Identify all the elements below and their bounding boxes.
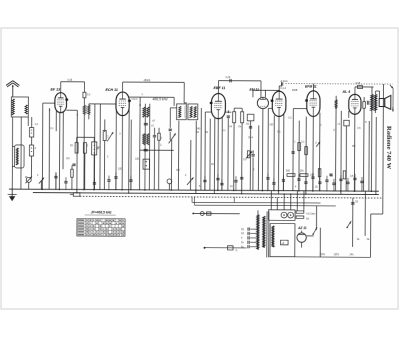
svg-text:1.: 1. xyxy=(141,93,143,96)
svg-text:45000: 45000 xyxy=(144,79,151,82)
svg-text:EM 11: EM 11 xyxy=(249,88,259,92)
svg-text:EF 13: EF 13 xyxy=(50,88,60,92)
svg-text:0,05: 0,05 xyxy=(226,76,231,79)
svg-text:1M: 1M xyxy=(66,157,69,160)
svg-text:150: 150 xyxy=(310,174,315,177)
svg-text:0,1-4: 0,1-4 xyxy=(280,87,286,90)
svg-text:ECH 11: ECH 11 xyxy=(105,88,117,92)
svg-text:2.: 2. xyxy=(160,144,162,147)
svg-text:AL 4: AL 4 xyxy=(341,90,350,94)
svg-text:100: 100 xyxy=(118,168,123,171)
svg-text:ZWB: ZWB xyxy=(292,89,298,92)
svg-text:AZ 11: AZ 11 xyxy=(297,226,307,230)
svg-text:100: 100 xyxy=(269,123,274,126)
svg-text:500: 500 xyxy=(286,169,291,172)
svg-text:30-4: 30-4 xyxy=(248,136,253,139)
svg-text:MF: MF xyxy=(352,145,356,148)
svg-text:50000: 50000 xyxy=(131,99,138,101)
svg-text:JF=468,5 kHz: JF=468,5 kHz xyxy=(91,211,112,215)
svg-text:125V: 125V xyxy=(334,253,340,256)
svg-text:EBF 11: EBF 11 xyxy=(213,86,225,90)
svg-text:Radione 740 W: Radione 740 W xyxy=(385,126,392,170)
svg-text:0,05: 0,05 xyxy=(68,79,73,82)
svg-text:JFF: JFF xyxy=(176,169,181,172)
svg-text:EFM 11: EFM 11 xyxy=(305,85,317,89)
svg-text:4,5 Ohm: 4,5 Ohm xyxy=(306,213,315,216)
svg-text:2M: 2M xyxy=(300,170,303,173)
svg-text:24h: 24h xyxy=(350,253,355,256)
svg-text:100: 100 xyxy=(135,158,140,161)
svg-text:468,5 kHz: 468,5 kHz xyxy=(152,97,168,101)
svg-text:G: G xyxy=(236,249,238,252)
